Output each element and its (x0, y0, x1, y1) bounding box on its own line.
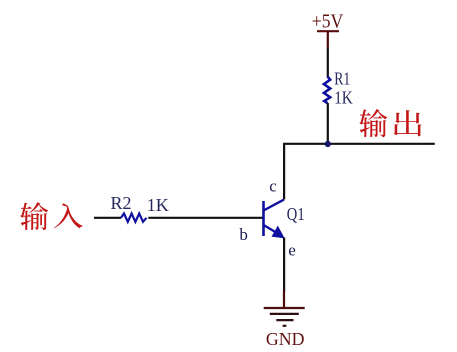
svg-text:Q1: Q1 (287, 204, 305, 224)
svg-text:R1: R1 (334, 68, 350, 88)
transistor Q1 emitter stroke (264, 225, 279, 234)
junction node dot (325, 141, 331, 147)
emitter wire down (283, 238, 285, 293)
ground bar 2 (270, 313, 299, 315)
svg-text:+5V: +5V (312, 11, 344, 33)
transistor Q1 base bar (262, 201, 265, 236)
ground stub (283, 290, 285, 308)
transistor Q1 emitter arrow (272, 227, 284, 238)
transistor Q1 collector stroke (264, 200, 285, 211)
resistor R1 (324, 77, 330, 104)
label 输入 (input) (20, 202, 82, 230)
power +5V stub (327, 31, 329, 48)
svg-text:c: c (269, 177, 277, 196)
svg-text:e: e (288, 241, 296, 260)
ground bar 4 (283, 325, 287, 327)
label 输出 (output) (359, 109, 421, 137)
svg-text:1K: 1K (147, 195, 169, 215)
ground bar 1 (264, 307, 305, 309)
svg-text:b: b (239, 225, 248, 244)
wire +5V to R1 (327, 48, 329, 77)
resistor R2 (121, 214, 147, 222)
wire R2 to base (148, 217, 263, 219)
svg-text:1K: 1K (334, 88, 353, 108)
input wire left segment (94, 217, 121, 219)
ground bar 3 (276, 319, 293, 321)
svg-text:R2: R2 (111, 193, 132, 213)
svg-text:GND: GND (266, 329, 305, 349)
wire R1 to node (327, 103, 329, 145)
power +5V bar symbol (317, 30, 339, 32)
output wire (284, 144, 435, 200)
